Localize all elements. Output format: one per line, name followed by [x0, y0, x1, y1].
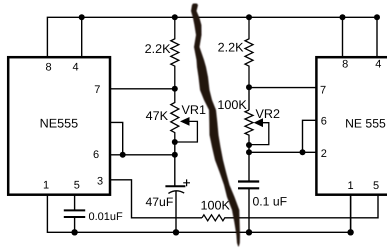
- capacitor C2 0.01uF plates: [64, 210, 85, 217]
- wire: VR2 column down to 0.1uF: [248, 145, 250, 182]
- node: right 555 pin 8 rail junction dot: [340, 14, 346, 20]
- capacitor C3 0.1uF plates: [238, 182, 259, 189]
- svg-text:2.2K: 2.2K: [218, 41, 245, 55]
- node: VR1 bottom junction dot: [172, 139, 178, 145]
- svg-text:NE 555: NE 555: [345, 117, 386, 131]
- node: right 2.2K rail junction dot: [246, 14, 252, 20]
- svg-text:4: 4: [72, 61, 78, 73]
- wire: 47uF to ground rail: [175, 191, 177, 232]
- VR1 wiper arrow: [175, 121, 198, 142]
- svg-text:47uF: 47uF: [146, 195, 174, 209]
- svg-text:2.2K: 2.2K: [145, 42, 172, 56]
- wire: 0.01uF to ground rail: [74, 217, 76, 232]
- wire: right 555 pin 8 to rail: [342, 17, 344, 56]
- resistor R2 2.2K right: vertical zigzag: [245, 17, 253, 87]
- node: pin6/pin2 junction dot: [300, 149, 306, 155]
- node: right 555 pin1 ground dot: [347, 229, 353, 235]
- wire: right 555 pin 2 to VR2 column: [249, 151, 316, 153]
- tear mark down the middle: [191, 4, 240, 247]
- node: VR2 bottom junction dot: [246, 142, 252, 148]
- IC U2: right NE555 box: [316, 57, 387, 195]
- wire: right 555 pin 6 down to pin 2 wire: [303, 120, 317, 152]
- svg-text:2: 2: [321, 148, 327, 160]
- resistor R1 2.2K left: vertical zigzag: [171, 17, 179, 89]
- wire: node B down to VR2: [248, 87, 250, 110]
- svg-text:4: 4: [375, 59, 381, 71]
- svg-text:5: 5: [373, 180, 379, 192]
- svg-text:8: 8: [342, 59, 348, 71]
- wire: left 555 pin 7 to node A: [110, 88, 175, 90]
- node: 47uF ground dot: [173, 229, 179, 235]
- svg-text:100K: 100K: [201, 198, 231, 212]
- node A: pin7/2.2K/VR1 junction dot: [172, 86, 178, 92]
- capacitor C1 47uF electrolytic: plates: [165, 185, 185, 187]
- potentiometer VR2 100K: vertical zigzag: [245, 110, 253, 145]
- svg-text:1: 1: [347, 180, 353, 192]
- node: 0.01uF ground dot: [71, 229, 77, 235]
- svg-text:VR2: VR2: [256, 107, 281, 121]
- svg-text:VR1: VR1: [182, 103, 207, 117]
- wire: right 555 pin 7 to node B: [249, 87, 316, 89]
- wire: top Vcc rail: [47, 17, 377, 56]
- svg-text:47K: 47K: [146, 109, 169, 123]
- svg-text:100K: 100K: [217, 98, 247, 112]
- wire: left 555 pin 3 L-wire down to 100K: [110, 180, 202, 218]
- op-amp U1: left NE555 IC box: [8, 57, 110, 195]
- node: VR2/pin2 wire junction dot: [246, 149, 252, 155]
- plus sign for C1: [183, 179, 190, 186]
- svg-text:0.1 uF: 0.1 uF: [253, 195, 288, 209]
- node: right 555 pin 4 rail corner dot: [374, 14, 380, 20]
- wire: 100K to right 555 pin 5: [240, 195, 378, 218]
- node: pin6/VR1 column junction dot: [172, 152, 178, 158]
- wire: right 555 pin 1 to ground rail: [350, 195, 352, 233]
- wire: left 555 pin 6 to VR1 column: [110, 154, 175, 156]
- wire: VR1 column down to 47uF cap: [174, 142, 176, 186]
- node: left 2.2K rail junction dot: [172, 14, 178, 20]
- svg-text:7: 7: [320, 84, 326, 96]
- wire: left 555 pin 5 to 0.01uF: [74, 195, 76, 210]
- wire: bottom ground rail: [47, 195, 350, 232]
- svg-text:1: 1: [43, 179, 49, 191]
- svg-text:8: 8: [45, 61, 51, 73]
- svg-text:6: 6: [321, 115, 327, 127]
- wire: 0.1uF down to ground rail: [248, 188, 250, 232]
- potentiometer VR1 47K: vertical zigzag: [171, 89, 179, 142]
- svg-text:6: 6: [93, 149, 99, 161]
- wire: left pin2 stub to pin6 wire: [110, 122, 123, 154]
- node B: pin7/2.2K/VR2 junction dot: [246, 84, 252, 90]
- svg-text:5: 5: [74, 179, 80, 191]
- node: 0.1uF ground dot: [246, 229, 252, 235]
- VR2 wiper arrow: [249, 123, 269, 145]
- svg-text:7: 7: [94, 84, 100, 96]
- svg-text:0.01uF: 0.01uF: [89, 211, 124, 223]
- node: pin4 junction dot: [79, 14, 85, 20]
- resistor R3 100K horizontal zigzag: [202, 215, 240, 221]
- wire: left 555 pin 4 to top rail: [81, 17, 83, 56]
- svg-text:NE555: NE555: [40, 117, 79, 131]
- node: pin2/pin6 junction dot: [120, 152, 126, 158]
- svg-text:3: 3: [97, 176, 103, 188]
